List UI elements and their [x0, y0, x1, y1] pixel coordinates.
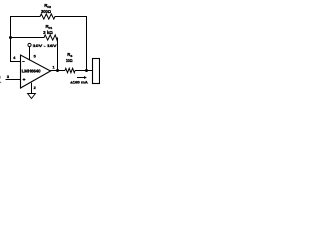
svg-text:3 kΩ: 3 kΩ [43, 30, 53, 35]
wire RF2 to right rail [56, 17, 87, 71]
supply terminal 10V-16V [28, 43, 31, 60]
svg-text:±160 mA: ±160 mA [70, 81, 88, 85]
node load junction [85, 69, 88, 72]
wire op-amp output [50, 70, 65, 72]
svg-text:5: 5 [34, 55, 36, 59]
ground [28, 94, 36, 99]
wire noninverting input [6, 79, 21, 81]
svg-text:10Ω: 10Ω [66, 58, 73, 63]
svg-text:300Ω: 300Ω [41, 9, 52, 14]
svg-text:4: 4 [13, 56, 16, 60]
load box [93, 59, 100, 84]
wire pin 2 to ground [31, 83, 33, 94]
node output junction [56, 69, 59, 72]
svg-text:2: 2 [34, 86, 36, 90]
wire RF1 row from rail [11, 37, 44, 39]
node inverting input junction [9, 36, 12, 39]
wire RF1 down to output node [57, 38, 59, 71]
wire RS to load [75, 70, 93, 72]
svg-text:10V - 16V: 10V - 16V [33, 43, 57, 48]
svg-text:LMH6640: LMH6640 [22, 68, 42, 73]
svg-text:RF1: RF1 [46, 24, 53, 30]
svg-text:1: 1 [53, 65, 55, 69]
resistor RS [65, 68, 75, 72]
op-amp U1 LMH6640 [21, 55, 51, 88]
resistor RF2 [39, 14, 56, 19]
svg-text:3: 3 [7, 75, 9, 79]
current arrow annotation [77, 76, 87, 79]
svg-text:L: L [0, 79, 2, 83]
svg-text:RF2: RF2 [44, 3, 51, 9]
wire left feedback rail with corners to RF2 and inverting input [11, 17, 40, 62]
resistor RF1 [43, 35, 58, 40]
